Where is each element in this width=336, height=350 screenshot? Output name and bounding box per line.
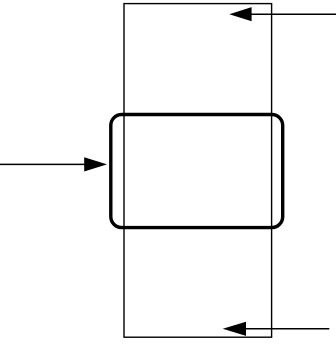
bottom arrowhead (223, 322, 246, 336)
thick rounded rectangle (111, 115, 283, 228)
left arrow wire (0, 163, 88, 165)
outer tall rectangle (124, 4, 272, 338)
bottom arrow wire (243, 328, 329, 330)
left arrowhead (84, 157, 107, 171)
top arrow wire (248, 13, 336, 15)
top arrowhead (229, 7, 251, 21)
